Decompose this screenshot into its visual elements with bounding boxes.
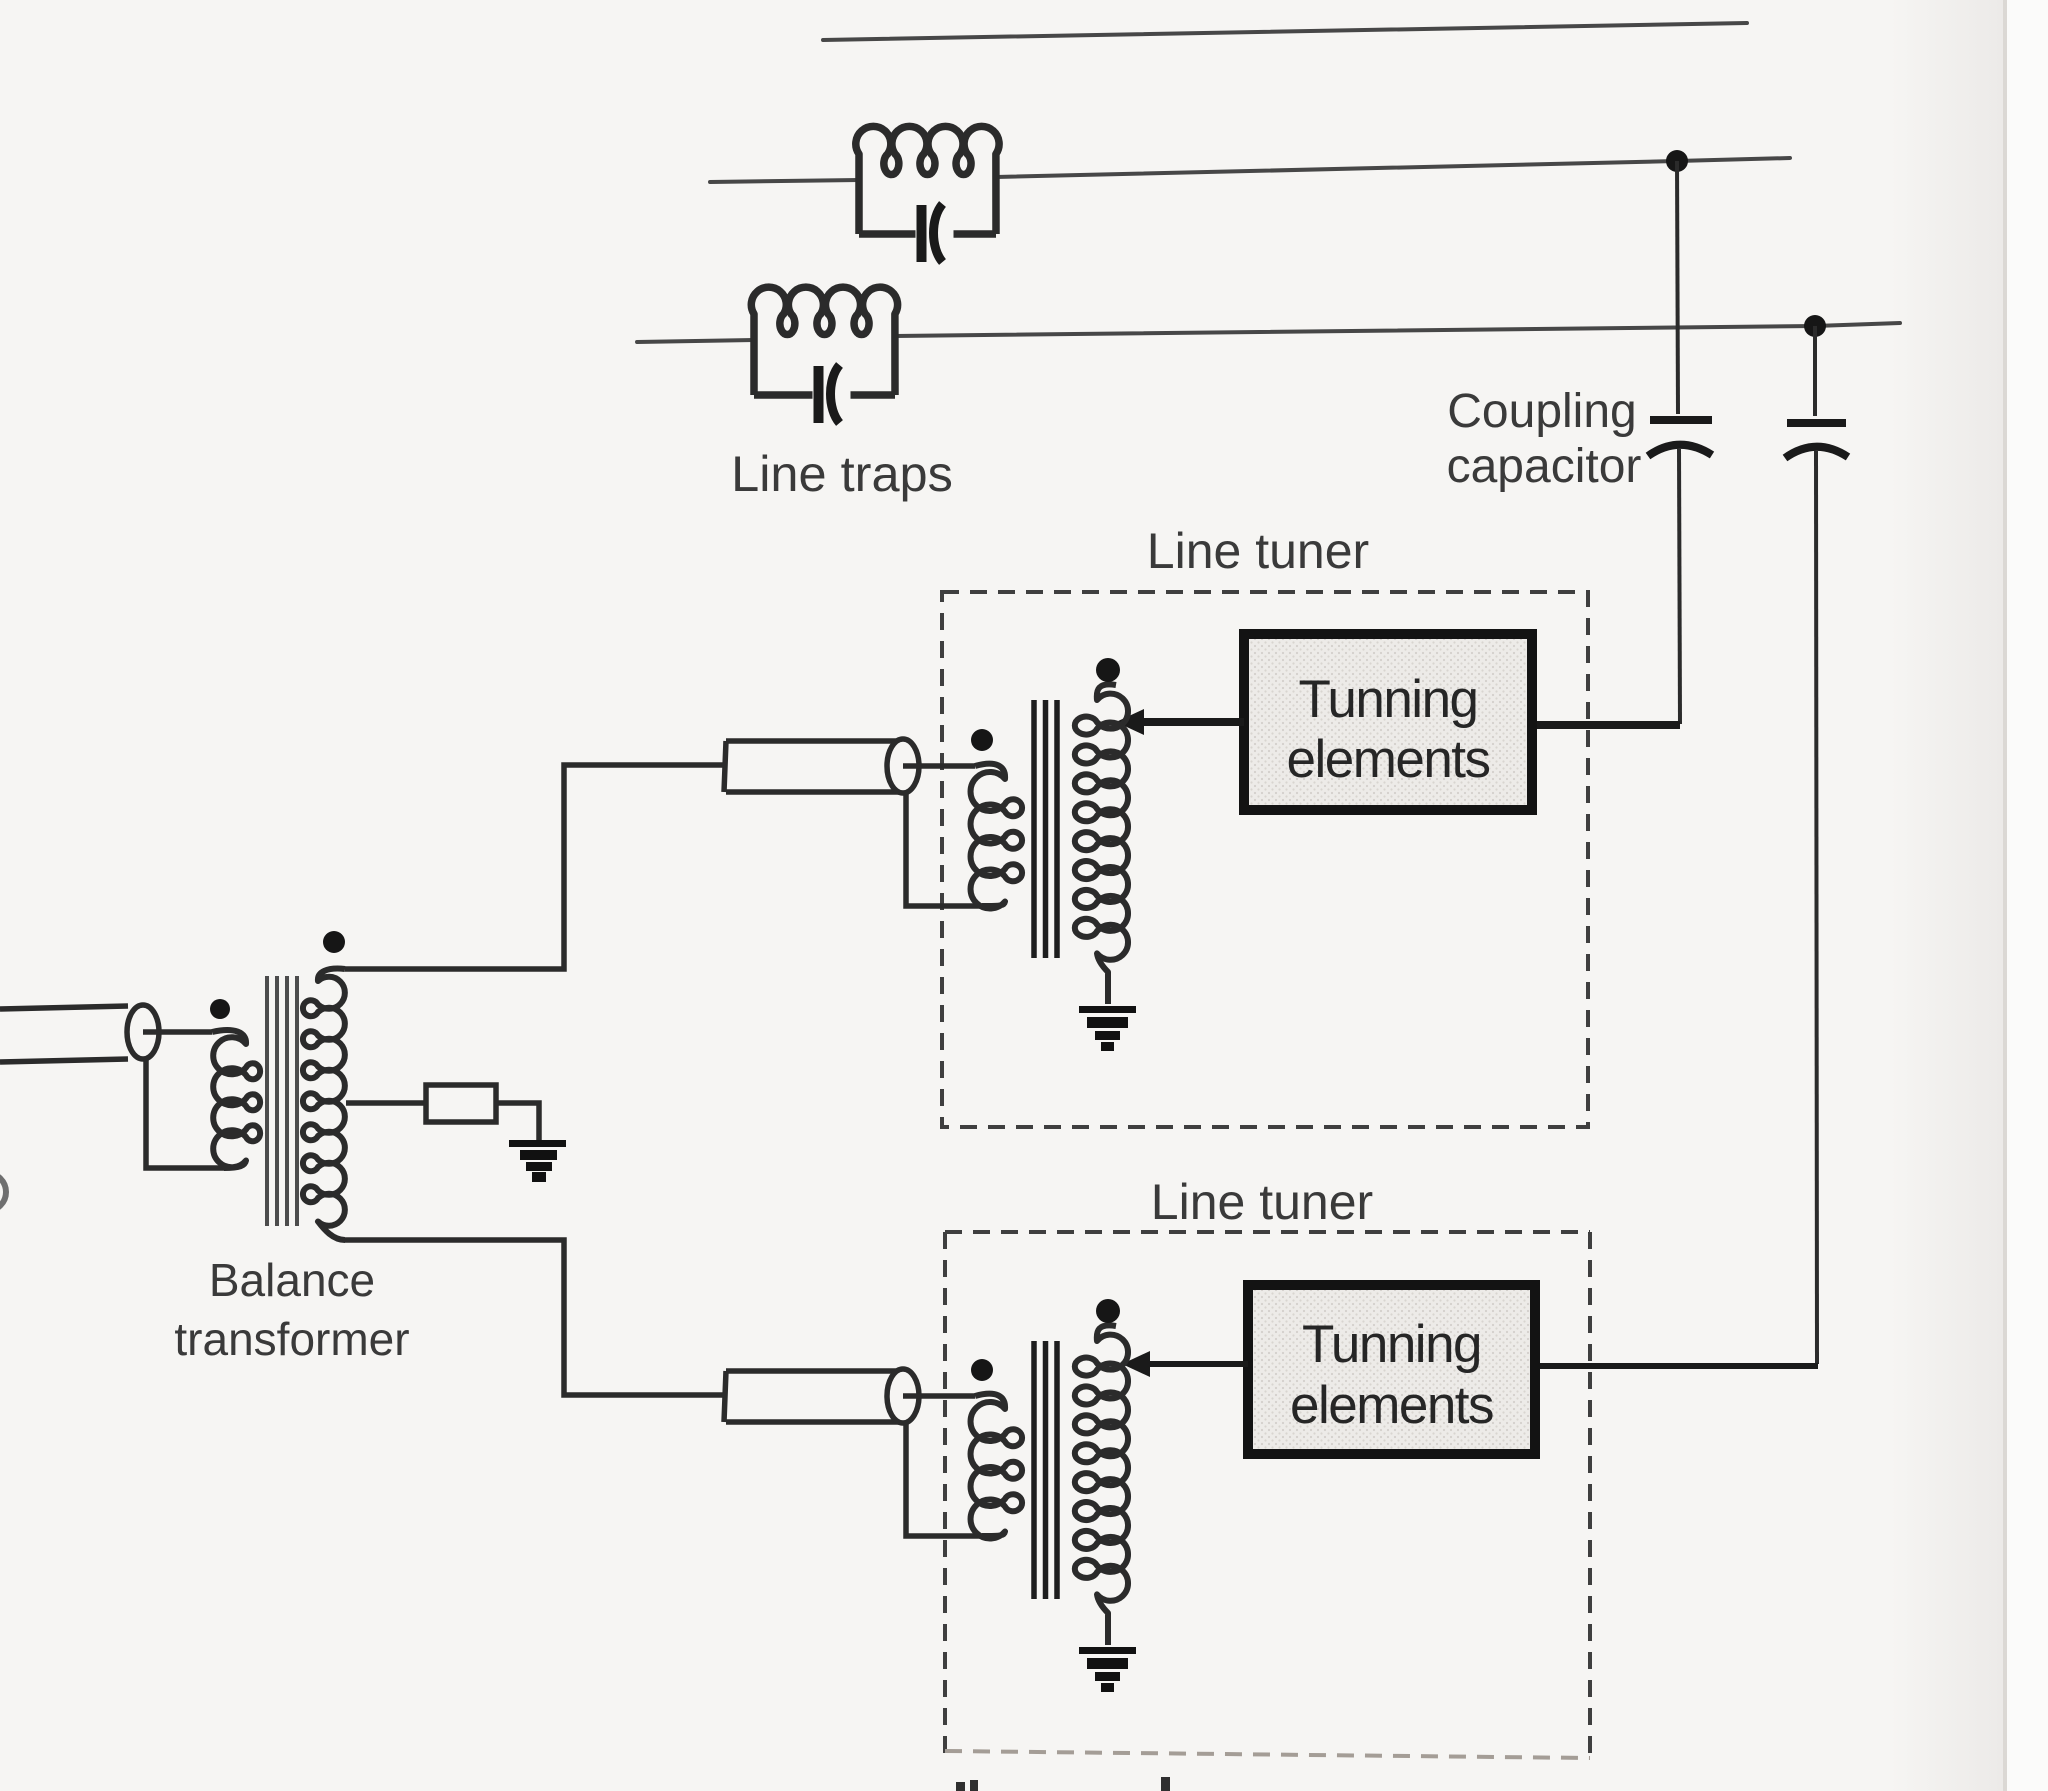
svg-text:Balance: Balance — [209, 1254, 375, 1306]
svg-text:Line tuner: Line tuner — [1151, 1174, 1373, 1230]
svg-text:Tunning: Tunning — [1302, 1315, 1481, 1374]
svg-text:Tunning: Tunning — [1298, 670, 1477, 729]
svg-text:Line traps: Line traps — [731, 445, 953, 502]
svg-text:capacitor: capacitor — [1447, 440, 1642, 493]
svg-text:Coupling: Coupling — [1447, 385, 1636, 438]
svg-text:elements: elements — [1286, 730, 1489, 789]
svg-text:elements: elements — [1290, 1376, 1493, 1435]
svg-text:transformer: transformer — [174, 1313, 409, 1365]
svg-text:Line tuner: Line tuner — [1147, 523, 1369, 579]
